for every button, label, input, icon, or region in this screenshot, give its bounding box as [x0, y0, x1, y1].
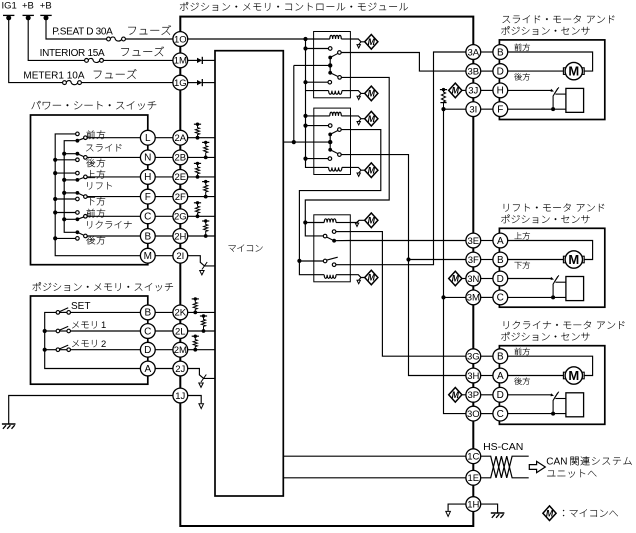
module pin 2K	[173, 305, 188, 320]
seat switch pin C	[140, 209, 155, 224]
svg-text:2K: 2K	[174, 308, 186, 319]
unit pin B	[493, 45, 508, 60]
svg-text:IG1: IG1	[2, 0, 17, 11]
wire 2G into microcomputer	[188, 215, 215, 217]
pull-up resistor at 2H	[202, 220, 209, 222]
relay coil K3b	[299, 261, 324, 275]
wire relay1 upper throw to 3B	[341, 53, 466, 72]
svg-text:B: B	[497, 255, 504, 266]
wire module to unit pin H	[481, 89, 493, 91]
wire B to module	[155, 235, 173, 237]
wire microcomputer to relay K2 pole	[283, 141, 330, 143]
wire fuse to pin 1G	[81, 82, 172, 84]
relay K3 lower pole feed	[299, 260, 323, 262]
wire 2F into microcomputer	[188, 196, 215, 198]
svg-text:D: D	[144, 345, 151, 356]
wire 1H left ground arrow	[448, 504, 466, 511]
module pin 2L	[173, 324, 188, 339]
unit pin D	[493, 387, 508, 402]
bus2 tap row H	[64, 179, 76, 181]
terminal IG1	[3, 14, 14, 16]
svg-text:D: D	[497, 274, 504, 285]
legend microcomputer diamond	[543, 506, 556, 521]
memory switch row D	[60, 349, 67, 351]
relay K3 upper contact output	[334, 240, 350, 242]
svg-text:H: H	[144, 172, 151, 183]
module pin 3F	[466, 252, 481, 267]
svg-text:1M: 1M	[174, 56, 187, 67]
module pin 1G	[173, 75, 188, 90]
relay coil K2b	[329, 167, 342, 171]
wire 2M into microcomputer	[188, 349, 215, 351]
wire module to unit pin D	[481, 278, 493, 280]
relay K3 upper throw wire	[336, 231, 351, 233]
svg-text:2J: 2J	[175, 364, 185, 375]
wire module to unit pin B	[481, 51, 493, 53]
module pin 3P	[466, 387, 481, 402]
wire pin1 to motor return	[508, 52, 593, 71]
wire module to unit pin D	[481, 70, 493, 72]
svg-text:3G: 3G	[467, 352, 480, 363]
bus2 tap row N	[64, 153, 76, 155]
relay K1 lower fixed contact feed	[306, 81, 329, 83]
diode D2 (1G)	[188, 82, 197, 84]
svg-text:2F: 2F	[175, 192, 186, 203]
relay K1 upper arm	[330, 53, 338, 57]
wire B to module	[155, 311, 173, 313]
relay K2 upper arm	[330, 130, 338, 134]
wire relay3 upper throw to 3G	[350, 232, 466, 357]
wire relay2 upper throw to relay3 lower feed loop	[299, 130, 380, 261]
wire H to module	[155, 176, 173, 178]
svg-text:2A: 2A	[174, 133, 186, 144]
svg-text:1O: 1O	[174, 34, 187, 45]
svg-text:METER1 10A: METER1 10A	[23, 71, 84, 82]
relay K2 upper fixed contact feed	[306, 125, 329, 127]
svg-text:3I: 3I	[469, 104, 477, 115]
pull-up resistor at 2L	[200, 315, 207, 317]
module pin 3O	[466, 406, 481, 421]
unit title	[504, 204, 509, 212]
svg-text:B: B	[144, 231, 151, 242]
svg-text:3E: 3E	[467, 236, 479, 247]
module pin 1H	[466, 497, 481, 512]
module pin 2G	[173, 209, 188, 224]
junction to 3F	[406, 257, 410, 261]
pull-up resistor at 2F	[202, 181, 209, 183]
relay K3 lower arm (open)	[326, 257, 337, 260]
unit pin C	[493, 406, 508, 421]
svg-text:D: D	[497, 66, 504, 77]
direction label up	[514, 232, 521, 239]
bus junction y=158.6	[303, 157, 307, 161]
seat switch direction labels	[87, 130, 95, 139]
module pin 3A	[466, 45, 481, 60]
bus1 tap row C	[55, 212, 75, 214]
wire F to module	[155, 196, 173, 198]
module pin 1O	[173, 32, 188, 47]
position sensor box	[566, 277, 584, 301]
unit pin A	[493, 368, 508, 383]
bus1 tap row H	[55, 172, 75, 174]
direction label down	[514, 377, 522, 384]
unit title	[504, 321, 509, 329]
coil K2a link to microcomputer	[350, 116, 364, 119]
wire pin1 to motor return	[508, 241, 593, 260]
relay box 2	[314, 108, 351, 174]
pull-up resistor at 2E	[194, 162, 201, 164]
wire 2A into microcomputer	[188, 137, 215, 139]
fuse INTERIOR 15A	[88, 58, 99, 62]
memory bus tap row C	[45, 330, 57, 332]
terminal +B 2	[40, 14, 51, 16]
svg-text:M: M	[144, 251, 152, 262]
sensor wiper stem	[553, 276, 558, 297]
module pin 2J	[173, 361, 188, 376]
svg-text:M: M	[568, 252, 579, 267]
bus2 tap row F	[64, 192, 76, 194]
svg-text:1: 1	[101, 319, 106, 330]
coil K3a link to microcomputer	[350, 220, 364, 222]
module pin 3N	[466, 271, 481, 286]
pull-up resistor at 2A	[194, 123, 201, 125]
svg-text:1J: 1J	[175, 391, 185, 402]
wire D to module	[155, 349, 173, 351]
switch row B: blade and contacts	[77, 232, 85, 236]
coil K1a link to microcomputer	[350, 39, 364, 42]
relay feed bus (from 1O)	[306, 39, 329, 167]
wire pin3 (wiper)	[508, 89, 553, 91]
wire module to unit pin C	[481, 413, 493, 415]
svg-text:3P: 3P	[467, 390, 479, 401]
sensor wiper stem	[553, 88, 558, 109]
seat switch pin N	[140, 150, 155, 165]
relay K1 pole bus vertical	[293, 65, 295, 142]
relay K3 contact circles	[323, 234, 327, 238]
svg-text:M: M	[368, 114, 376, 124]
svg-text:F: F	[145, 192, 151, 203]
microcomputer box (マイコン)	[215, 51, 283, 496]
unit title	[503, 16, 511, 23]
svg-text:C: C	[144, 212, 151, 223]
unit box	[499, 40, 604, 120]
svg-text:F: F	[497, 104, 503, 115]
seat switch pin M	[140, 248, 155, 263]
svg-text:M: M	[452, 86, 460, 96]
wire A to module	[155, 368, 173, 370]
memory switch pin D	[140, 342, 155, 357]
wire pin3 (wiper)	[508, 278, 553, 280]
module title	[180, 2, 188, 11]
wire pin2 to motor	[508, 375, 564, 377]
sensor wiper stem	[553, 393, 558, 414]
module pin 3I	[466, 102, 481, 117]
svg-text:M: M	[368, 89, 376, 99]
svg-text:1H: 1H	[467, 499, 479, 510]
svg-text:3M: 3M	[467, 293, 480, 304]
module pin 2B	[173, 150, 188, 165]
module pin 2H	[173, 229, 188, 244]
module pin 3H	[466, 368, 481, 383]
wire pin2 to motor	[508, 70, 564, 72]
wire module to unit pin F	[481, 108, 493, 110]
power seat switch title	[32, 101, 41, 109]
svg-text:2: 2	[101, 338, 106, 349]
wire 1H right chassis ground	[481, 504, 498, 513]
relay K2 lower arm	[330, 150, 338, 154]
svg-text:N: N	[144, 153, 151, 164]
switch row N: blade and contacts	[77, 154, 85, 158]
wire microcomputer to 1C	[283, 455, 466, 457]
direction label down	[514, 262, 521, 269]
relay K3 upper arm (closed onto contact)	[326, 237, 334, 241]
direction label up	[515, 348, 522, 355]
seat switch common bus 1	[55, 134, 140, 256]
wire fuse to pin 1M	[103, 59, 172, 61]
junction pole bus	[292, 140, 296, 144]
svg-text:A: A	[144, 364, 151, 375]
seat switch pin F	[140, 189, 155, 204]
wire pin1 to motor return	[508, 356, 593, 375]
relay coil K3a	[305, 222, 324, 224]
wire 2L into microcomputer	[188, 330, 215, 332]
terminal +B 1	[23, 14, 34, 16]
module pin 2F	[173, 189, 188, 204]
svg-text:B: B	[497, 47, 504, 58]
module pin 2A	[173, 130, 188, 145]
wire relay3 lower throw to 3A	[350, 52, 466, 265]
svg-text:P.SEAT D 30A: P.SEAT D 30A	[52, 27, 113, 38]
wire module to unit pin B	[481, 355, 493, 357]
wire M to module	[155, 255, 173, 257]
wire relay3 upper contact to 3E	[350, 240, 466, 242]
svg-text:+B: +B	[22, 0, 34, 11]
svg-text:A: A	[497, 236, 504, 247]
svg-text:2G: 2G	[174, 212, 187, 223]
wire module to unit pin D	[481, 394, 493, 396]
microcomputer diamond at 3P	[449, 388, 462, 403]
svg-text:B: B	[497, 352, 504, 363]
relay coil K1b	[306, 90, 329, 92]
relay K3 upper pole feed	[305, 223, 323, 236]
bus junction y=125.6	[303, 124, 307, 128]
relay coil K1a	[330, 35, 342, 39]
svg-text:C: C	[497, 409, 504, 420]
switch row H: blade and contacts	[77, 177, 85, 180]
bus1 tap row B	[55, 237, 75, 239]
svg-text:1E: 1E	[467, 473, 479, 484]
svg-text:M: M	[368, 165, 376, 175]
relay K2 lower fixed contact feed	[306, 158, 329, 160]
wire 2E into microcomputer	[188, 176, 215, 178]
pull-up resistor at 3J input	[440, 89, 447, 91]
pull-up resistor at 2B	[202, 141, 209, 143]
switch row L: blade and contacts	[77, 138, 85, 141]
wire IG1 to METER1 fuse	[9, 18, 63, 83]
wire microcomputer to 1E	[283, 477, 466, 479]
relay box 1	[314, 32, 351, 98]
module pin 2I	[173, 248, 188, 263]
svg-text:M: M	[568, 64, 579, 79]
wire pin4 (sensor ground)	[508, 108, 566, 110]
relay K2 pole chain	[329, 134, 331, 149]
relay box 3	[314, 215, 351, 282]
fuse METER1 10A	[66, 81, 77, 85]
unit pin D	[493, 271, 508, 286]
unit pin H	[493, 83, 508, 98]
svg-text:2B: 2B	[174, 153, 186, 164]
module pin 3E	[466, 233, 481, 248]
module pin 1C	[466, 449, 481, 464]
svg-text:2L: 2L	[175, 326, 186, 337]
wire 2K into microcomputer	[188, 311, 215, 313]
wire 2H into microcomputer	[188, 235, 215, 237]
coil K3b link to microcomputer	[350, 275, 364, 278]
wire +B1 to INTERIOR fuse	[28, 18, 84, 61]
svg-text:1C: 1C	[467, 452, 479, 463]
wire 2B into microcomputer	[188, 156, 215, 158]
relay K1 pole chain	[329, 58, 331, 73]
switch row F: blade and contacts	[77, 193, 85, 197]
wire +B2 to P.SEAT fuse	[46, 18, 107, 39]
module pin 1E	[466, 470, 481, 485]
svg-text:2I: 2I	[176, 251, 184, 262]
wire module to unit pin B	[481, 259, 493, 261]
module pin 2E	[173, 170, 188, 185]
unit pin D	[493, 64, 508, 79]
wire L to module	[155, 137, 173, 139]
svg-text:H: H	[497, 86, 504, 97]
module pin 2M	[173, 342, 188, 357]
svg-text:M: M	[368, 273, 376, 283]
relay coil K2a	[306, 115, 330, 117]
svg-text:C: C	[497, 293, 504, 304]
twisted pair CAN wires	[481, 456, 529, 478]
svg-text:M: M	[546, 508, 554, 518]
svg-text:3N: 3N	[467, 274, 479, 285]
bus2 tap row C	[64, 218, 76, 220]
pull-up resistor at 2M	[192, 335, 199, 337]
pull-up resistor at 2G	[194, 202, 201, 204]
direction label down	[514, 73, 522, 80]
svg-text:INTERIOR 15A: INTERIOR 15A	[40, 48, 105, 59]
chassis ground (bottom left)	[2, 423, 16, 425]
unit pin A	[493, 233, 508, 248]
sensor ground bus 3I/3M/3O	[444, 109, 466, 413]
CAN arrow to other units	[529, 461, 545, 472]
seat switch pin L	[140, 130, 155, 145]
direction label up	[515, 43, 522, 50]
wire C to module	[155, 215, 173, 217]
coil K2b link to microcomputer	[350, 167, 364, 170]
unit box	[499, 346, 604, 425]
bus junction y=39	[303, 37, 307, 41]
svg-text:HS-CAN: HS-CAN	[483, 441, 523, 453]
wire pin3 (wiper)	[508, 394, 553, 396]
wire pin4 (sensor ground)	[508, 413, 566, 415]
diode D1 (1M)	[188, 59, 197, 61]
memory bus tap row D	[45, 349, 57, 351]
position memory control module box	[180, 17, 473, 526]
wire pin4 (sensor ground)	[508, 296, 566, 298]
unit pin B	[493, 252, 508, 267]
wire relay1 lower throw to relay3 upper feed loop	[305, 77, 389, 222]
svg-text:C: C	[144, 326, 151, 337]
wire module to unit pin A	[481, 375, 493, 377]
wire 1O to relay feed bus	[188, 38, 330, 40]
seat switch pin H	[140, 170, 155, 185]
memory switch pin B	[140, 305, 155, 320]
module pin 3B	[466, 64, 481, 79]
svg-text:+B: +B	[40, 0, 52, 11]
svg-text:3H: 3H	[467, 371, 479, 382]
svg-text:L: L	[145, 133, 151, 144]
wire module to unit pin C	[481, 296, 493, 298]
position sensor box	[566, 393, 584, 417]
coil K1b link to microcomputer	[350, 91, 364, 94]
wire relay2 lower throw to 3F and 3H	[341, 155, 466, 376]
bus junction y=115.9	[303, 114, 307, 118]
switch-to-ground symbol at 2I	[188, 256, 215, 266]
wire module to unit pin A	[481, 240, 493, 242]
svg-text:3B: 3B	[467, 66, 479, 77]
svg-text:1G: 1G	[174, 78, 187, 89]
module pin 3G	[466, 349, 481, 364]
fuse P.SEAT D 30A	[110, 37, 121, 41]
svg-text:2M: 2M	[174, 345, 187, 356]
svg-text:M: M	[452, 390, 460, 400]
memory switch row C	[60, 330, 67, 332]
relay K1 lower arm	[330, 73, 338, 77]
svg-text:3J: 3J	[468, 86, 478, 97]
svg-text:2E: 2E	[174, 172, 186, 183]
wire N to module	[155, 156, 173, 158]
svg-text:3O: 3O	[467, 409, 480, 420]
svg-text:CAN: CAN	[546, 457, 567, 468]
unit pin B	[493, 349, 508, 364]
svg-text:B: B	[144, 308, 151, 319]
bus1 tap row F	[55, 198, 75, 200]
svg-text:M: M	[452, 274, 460, 284]
pull-up resistor at 2K	[192, 298, 199, 300]
microcomputer diamond at 3J	[449, 83, 462, 98]
motor	[563, 256, 567, 263]
module pin 3J	[466, 83, 481, 98]
relay K1 upper fixed contact	[306, 48, 329, 50]
junction sensor bus to 3M	[441, 295, 445, 299]
svg-text:3A: 3A	[467, 47, 479, 58]
power seat switch box	[31, 115, 148, 265]
memory switch pin A	[140, 361, 155, 376]
unit pin F	[493, 102, 508, 117]
svg-text:M: M	[368, 37, 376, 47]
motor	[563, 68, 567, 75]
unit box	[499, 228, 604, 307]
seat switch pin B	[140, 229, 155, 244]
memory switch common bus	[45, 312, 141, 368]
svg-text:2H: 2H	[174, 231, 186, 242]
position sensor box	[566, 88, 584, 112]
memory switch row B	[60, 311, 67, 313]
seat switch common bus 2	[64, 141, 76, 233]
memory switch pin C	[140, 324, 155, 339]
svg-text:M: M	[368, 216, 376, 226]
wire fuse to pin 1O	[125, 38, 172, 40]
module pin 1M	[173, 53, 188, 68]
relay K3 lower throw wire	[336, 264, 351, 266]
switch row C: blade and contacts	[77, 216, 85, 219]
relay K1 pole output to microcomputer bus	[294, 64, 330, 66]
